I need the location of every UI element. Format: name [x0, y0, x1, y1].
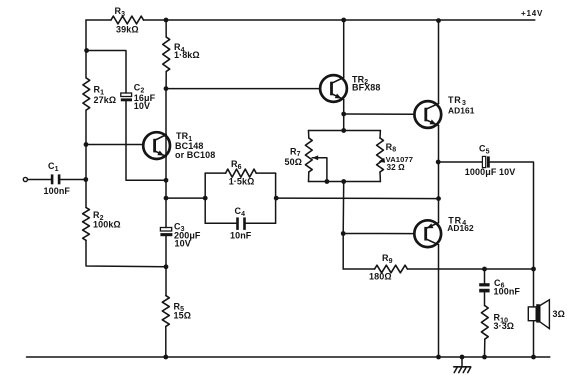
node TR2 emitter junction: [341, 112, 346, 117]
capacitor C2: [121, 83, 156, 111]
wire R5 to ground rail: [165, 326, 167, 357]
capacitor C4: [205, 206, 275, 240]
svg-text:+14V: +14V: [521, 9, 543, 18]
wire TR2 collector: [343, 20, 345, 78]
node TR4 base tee: [341, 231, 346, 236]
wire R2 bottom to C3 node: [86, 240, 166, 266]
wire bias to TR4 base trunk: [342, 182, 345, 270]
wire left bias rail: [85, 20, 87, 208]
node rail-TR3 junction: [436, 18, 441, 23]
svg-text:100kΩ: 100kΩ: [93, 219, 121, 229]
node C2 bootstrap tap: [84, 48, 89, 53]
node C5 junction: [436, 160, 441, 165]
wire C1 to base node: [60, 179, 86, 181]
wire +14V supply rail: [86, 19, 535, 21]
resistor R3: [111, 6, 144, 35]
resistor R5: [162, 296, 191, 327]
node TR1 base junction: [84, 142, 89, 147]
node R2 feedback junction: [164, 264, 169, 269]
wire emitter tap to network: [166, 197, 205, 199]
resistor R10: [481, 292, 514, 357]
input terminal: [23, 177, 27, 181]
wire TR3 collector: [438, 21, 440, 104]
transistor TR2: [320, 74, 380, 102]
node speaker tee: [531, 267, 536, 272]
svg-text:1·8kΩ: 1·8kΩ: [174, 50, 200, 60]
node TR1 collector junction: [164, 86, 169, 91]
resistor R6: [205, 159, 275, 186]
capacitor C5: [438, 144, 515, 178]
svg-text:27kΩ: 27kΩ: [94, 95, 117, 105]
svg-text:AD161: AD161: [448, 105, 475, 115]
svg-text:100nF: 100nF: [44, 186, 71, 196]
resistor R9: [343, 253, 407, 281]
capacitor C3: [160, 221, 201, 248]
resistor R1: [83, 78, 116, 110]
svg-text:TR: TR: [448, 95, 462, 105]
wire TR4 collector to ground rail: [438, 245, 440, 357]
node bias network top junction: [341, 128, 346, 133]
resistor R7: [285, 131, 313, 182]
wire C3 bottom to R5: [165, 236, 167, 295]
node wiper bottom junction: [325, 179, 330, 184]
node speaker ground junction: [531, 355, 536, 360]
resistor R8: [377, 131, 413, 182]
wire TR3 emitter / output trunk: [438, 125, 440, 222]
wire R9 to output coupling: [407, 268, 533, 270]
node input junction: [83, 177, 88, 182]
svg-text:10V: 10V: [134, 101, 150, 111]
resistor R2: [83, 208, 121, 241]
wire input to C1: [28, 179, 52, 181]
wire R4 leads: [165, 20, 167, 89]
node emitter feedback junction: [164, 178, 169, 183]
node rail-R4 junction: [164, 18, 169, 23]
node network left junction: [203, 196, 208, 201]
wire feedback line to output: [276, 197, 438, 200]
wire C5 to speaker branch: [490, 162, 534, 269]
wire TR1 collector to TR2 base: [166, 88, 320, 90]
svg-text:BFX88: BFX88: [352, 83, 381, 93]
svg-text:50Ω: 50Ω: [285, 157, 303, 167]
svg-text:10nF: 10nF: [230, 231, 252, 241]
node R6-C4 tap junction: [164, 196, 169, 201]
svg-text:1000μF 10V: 1000μF 10V: [465, 167, 516, 177]
wire 0V ground rail: [27, 356, 550, 358]
wire C2 top branch: [87, 51, 126, 94]
svg-text:3Ω: 3Ω: [553, 309, 565, 319]
svg-text:39kΩ: 39kΩ: [116, 25, 139, 35]
svg-text:180Ω: 180Ω: [369, 271, 392, 281]
node rail-TR2 junction: [341, 18, 346, 23]
svg-text:1·5kΩ: 1·5kΩ: [229, 176, 255, 186]
svg-text:3·3Ω: 3·3Ω: [494, 321, 515, 331]
label +14V: [521, 9, 543, 18]
transistor TR3: [414, 95, 474, 128]
transistor TR4: [414, 215, 474, 247]
wire bias network top: [309, 130, 381, 132]
transistor TR1: [143, 131, 215, 160]
svg-text:32 Ω: 32 Ω: [387, 163, 406, 172]
wire TR1 collector-emitter trunk: [165, 89, 167, 228]
node bias network bottom junction: [341, 179, 346, 184]
speaker LS1: [528, 300, 565, 329]
node R10 ground junction: [482, 355, 487, 360]
svg-text:10V: 10V: [175, 239, 191, 249]
wire TR2 emitter: [343, 100, 345, 131]
wire TR4 base: [343, 233, 414, 235]
svg-text:or BC108: or BC108: [175, 150, 215, 160]
node R5 ground junction: [163, 355, 168, 360]
node network right junction: [274, 196, 279, 201]
svg-text:100nF: 100nF: [494, 287, 521, 297]
capacitor C6: [479, 269, 520, 297]
svg-text:AD162: AD162: [447, 223, 474, 233]
wire speaker drop: [533, 269, 535, 357]
ground symbol: [454, 355, 471, 373]
wire TR1 base: [86, 144, 143, 146]
wire C2 bottom to emitter node: [126, 101, 166, 180]
wire R6-C4 left branch: [204, 173, 206, 223]
wire TR2 emitter to TR3 base: [344, 113, 415, 115]
node TR4 ground junction: [436, 355, 441, 360]
node output feedback junction: [436, 196, 441, 201]
node C6 junction: [482, 267, 487, 272]
resistor R4: [163, 37, 200, 72]
wire bias network bottom: [309, 181, 381, 183]
capacitor C1: [44, 161, 71, 196]
wire R6-C4 right branch: [275, 173, 277, 223]
svg-text:15Ω: 15Ω: [174, 311, 192, 321]
wiper arrow R7: [312, 155, 327, 181]
